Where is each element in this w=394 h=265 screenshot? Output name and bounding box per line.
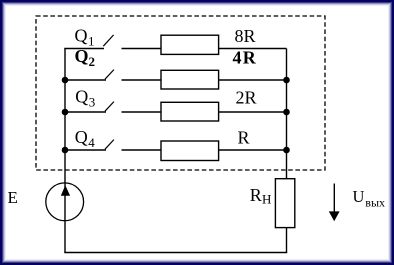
- switch Q1: [64, 26, 161, 49]
- resistor R: [161, 127, 287, 160]
- junction dot right bus row3: [283, 109, 290, 116]
- junction dot right bus row2: [283, 77, 290, 84]
- junction dot left bus row2: [62, 77, 69, 84]
- svg-text:H: H: [262, 192, 271, 207]
- wire: left bus vertical: [64, 49, 66, 253]
- svg-text:U: U: [353, 187, 365, 206]
- switch Q2: [65, 46, 161, 80]
- svg-text:8R: 8R: [235, 26, 256, 46]
- switch Q3: [65, 87, 161, 112]
- svg-text:Q: Q: [75, 46, 89, 66]
- junction dot left bus row4: [62, 147, 69, 154]
- svg-text:1: 1: [88, 33, 95, 48]
- svg-text:4: 4: [88, 135, 95, 150]
- svg-text:R: R: [238, 127, 250, 147]
- svg-text:Q: Q: [75, 87, 88, 107]
- resistor 8R: [161, 26, 287, 54]
- dashed enclosure box: [36, 16, 325, 170]
- wire: right bus vertical: [286, 49, 288, 253]
- junction dot left bus row3: [62, 109, 69, 116]
- svg-text:2: 2: [89, 54, 96, 69]
- switch Q4: [65, 127, 161, 150]
- svg-text:3: 3: [89, 94, 96, 109]
- svg-text:4R: 4R: [233, 47, 257, 67]
- resistor 4R: [161, 47, 287, 89]
- svg-text:R: R: [250, 185, 262, 205]
- svg-text:E: E: [8, 188, 18, 207]
- svg-text:вых: вых: [365, 195, 385, 209]
- output voltage arrow Uvyh: [329, 184, 385, 222]
- current source E: [8, 183, 84, 221]
- svg-text:Q: Q: [75, 127, 88, 147]
- resistor 2R: [161, 88, 287, 121]
- svg-text:2R: 2R: [236, 88, 257, 108]
- svg-text:Q: Q: [75, 26, 88, 46]
- wire: bottom return: [64, 252, 287, 254]
- junction dot right bus row4: [283, 147, 290, 154]
- load resistor RH: [250, 179, 295, 228]
